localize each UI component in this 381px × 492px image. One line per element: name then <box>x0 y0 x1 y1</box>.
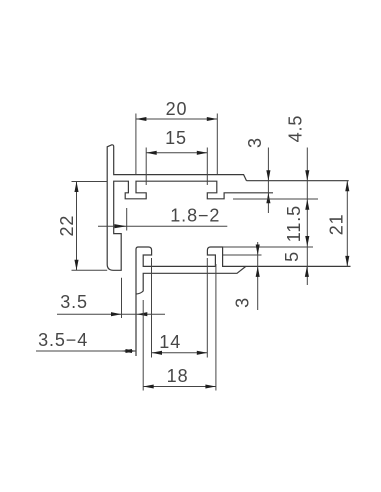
bottom profile web bottom, chamfer and leg inner face <box>136 266 246 294</box>
svg-text:3.5: 3.5 <box>60 292 88 312</box>
top profile shelf top edge merged with dim 21 top extension <box>247 180 349 182</box>
svg-text:11.5: 11.5 <box>284 205 304 242</box>
dim 3 bottom arrow lower <box>256 266 260 277</box>
dim 14 line <box>152 352 208 354</box>
bottom profile outline: leg, hooks, web top merged with right extension <box>136 247 351 356</box>
dim 3.5 extension line <box>121 278 123 318</box>
dim 14 extension line left <box>151 258 153 358</box>
dim 4.5 arrow lower <box>305 199 309 210</box>
dim 21 arrow bottom <box>345 256 349 267</box>
dim 3 bottom line <box>257 242 259 310</box>
dim 14 extension line right <box>206 258 208 358</box>
hook top extension line <box>223 246 313 248</box>
svg-text:21: 21 <box>326 213 346 235</box>
svg-text:18: 18 <box>167 366 189 386</box>
dim 20 extension line right <box>216 114 218 175</box>
dim 20 extension line left <box>135 114 137 175</box>
svg-text:15: 15 <box>165 128 187 148</box>
svg-text:1.8−2: 1.8−2 <box>170 205 220 225</box>
dim 20 arrow right <box>207 117 218 121</box>
dim 3.5 line <box>57 313 165 315</box>
dim 22 arrow bottom <box>74 260 78 271</box>
dim 22 line <box>76 182 78 271</box>
dim 3 top line <box>267 148 269 214</box>
dim 15 arrow left <box>146 151 157 155</box>
svg-text:4.5: 4.5 <box>285 115 305 143</box>
dim 1.8-2 line <box>98 225 227 227</box>
dim 3.5-4 arrow left <box>122 349 133 353</box>
top profile outline <box>107 145 273 270</box>
dim 18 arrow left <box>143 384 154 388</box>
dim 18 line <box>143 386 216 388</box>
dim 3.5-4 line <box>36 350 136 352</box>
dim 15 extension line left <box>145 148 147 186</box>
toe bottom extension line <box>223 254 262 256</box>
dim 14 arrow left <box>152 351 163 355</box>
svg-text:3: 3 <box>232 297 252 308</box>
dim 18 arrow right <box>205 384 216 388</box>
dim 22 arrow top <box>74 182 78 193</box>
dim 5 arrow bottom <box>305 266 309 277</box>
dim 18 extension line left <box>142 300 144 391</box>
dim 3.5 arrow left <box>111 312 122 316</box>
svg-text:3.5−4: 3.5−4 <box>38 330 88 350</box>
dim 1.8-2 arrow <box>114 224 126 228</box>
dim 3 top arrow lower <box>266 193 270 204</box>
dim 18 extension line right <box>215 264 217 391</box>
dim 11.5 arrow bottom <box>305 236 309 247</box>
dim 15 line <box>146 152 207 154</box>
dim 4.5 / 11.5 / 5 shared line <box>306 148 308 286</box>
dim 21 line <box>346 181 348 267</box>
dim 15 extension line right <box>206 148 208 186</box>
dim 4.5 extension line <box>233 198 318 200</box>
dim 3 top arrow upper <box>266 170 270 181</box>
dim 3.5 arrow right <box>137 312 148 316</box>
dim 22 extension line bottom <box>72 269 108 271</box>
svg-text:5: 5 <box>282 251 302 262</box>
dim 22 extension line top <box>72 181 108 183</box>
dim 3 bottom arrow upper <box>256 245 260 256</box>
dim 15 arrow right <box>197 151 208 155</box>
dim 21 arrow top <box>345 181 349 192</box>
svg-text:3: 3 <box>245 137 265 148</box>
dim 20 arrow left <box>136 117 147 121</box>
dim 1.8-2 extension line <box>126 208 128 231</box>
dim 14 arrow right <box>197 351 208 355</box>
svg-text:20: 20 <box>166 99 188 119</box>
dim 4.5 arrow upper <box>305 170 309 181</box>
dim 20 line <box>136 118 217 120</box>
dim 3.5-4 arrow right <box>126 349 137 353</box>
svg-text:22: 22 <box>57 215 77 237</box>
svg-text:14: 14 <box>159 332 181 352</box>
